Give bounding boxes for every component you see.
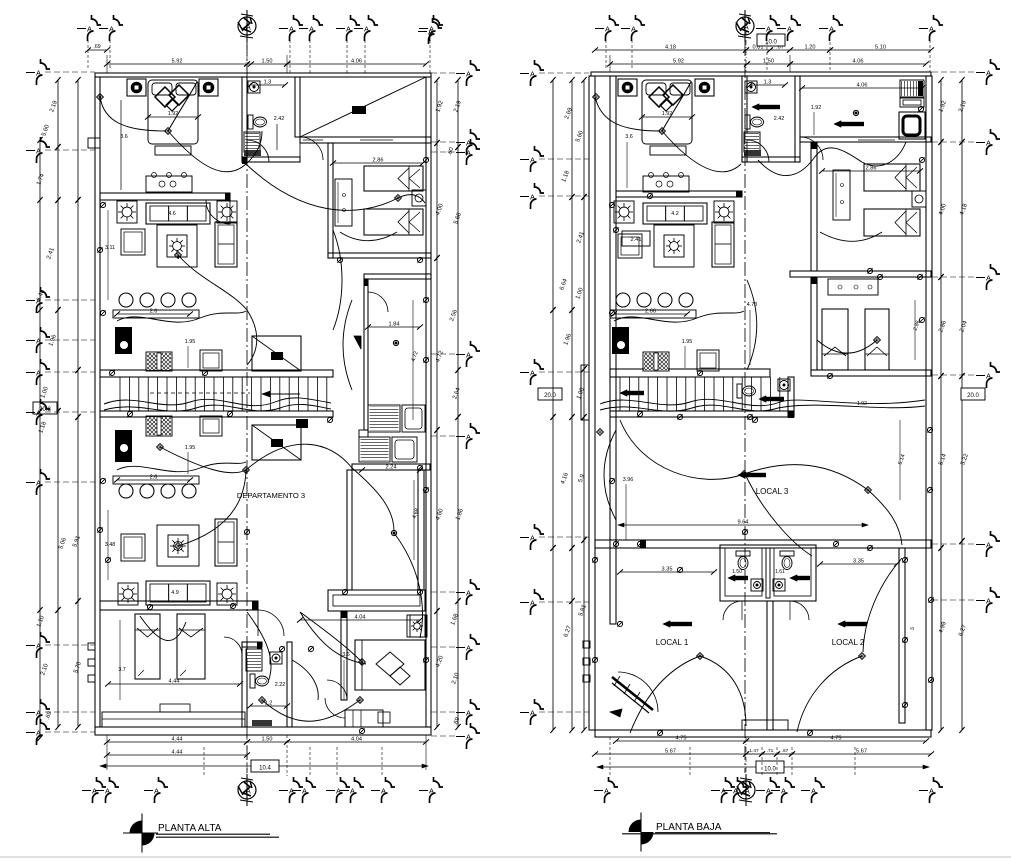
stairs U treads [120, 377, 327, 411]
fan chair R2 [714, 201, 734, 223]
text 2.19 r [453, 100, 463, 114]
dim 1.84 [365, 322, 423, 330]
svg-text:A: A [429, 787, 434, 796]
wire laundry [343, 300, 352, 390]
outlet L14 [337, 257, 342, 262]
text R 1.00b [576, 387, 586, 401]
wall R kitchen bottom [610, 369, 770, 377]
svg-text:A: A [364, 25, 369, 34]
dim 2.24 [359, 465, 423, 473]
outlet L5 [100, 202, 105, 207]
arrow stairs R2 [759, 396, 784, 402]
ext bottom [107, 735, 426, 782]
text 1.86 r [455, 508, 465, 522]
text RR 4.18 [959, 203, 969, 217]
svg-text:A: A [811, 787, 816, 796]
svg-text:5.92: 5.92 [673, 59, 684, 65]
svg-text:A: A [744, 787, 750, 796]
wall right-plan left [589, 76, 595, 730]
svg-text:20.0: 20.0 [967, 393, 979, 399]
svg-text:A: A [829, 25, 834, 34]
text 1.95 U [185, 339, 196, 368]
outlet R5 [609, 310, 614, 315]
wall bedroom3 left [341, 611, 347, 700]
stairs R wire wave 2 [600, 405, 925, 411]
amark bottom R2 [723, 777, 747, 803]
amark left L6 [26, 469, 95, 495]
counter R U [610, 309, 696, 319]
wall living2/bedroom [100, 601, 258, 610]
outlet X1 [867, 545, 872, 550]
stairs rail dashed [150, 392, 250, 394]
svg-text:3.11: 3.11 [105, 245, 115, 251]
wall R kitchenTR bottom [800, 137, 931, 142]
washbasin R bath [745, 81, 757, 93]
fan chair U1 [117, 201, 137, 223]
svg-text:A: A [929, 25, 934, 34]
svg-text:4.44: 4.44 [172, 737, 183, 743]
section line right-plan [744, 42, 746, 773]
wall R stairs right [788, 377, 794, 417]
wire bath2 [292, 660, 318, 700]
toilet in stairs [737, 384, 756, 398]
dim 2.22 bath2 [275, 682, 286, 688]
wall R stairs bottom [610, 411, 794, 417]
svg-text:10.4: 10.4 [259, 766, 271, 772]
svg-text:2.42: 2.42 [774, 116, 785, 122]
arrow local1 [663, 621, 692, 627]
wall bath2 right [287, 642, 292, 727]
amark bottom R5 [801, 777, 825, 803]
amark top R0 [595, 15, 619, 41]
bed B2b [364, 209, 423, 235]
nightstand RN2 [695, 79, 714, 96]
svg-text:A: A [986, 69, 991, 78]
balcony bump R1 [583, 641, 590, 648]
wall R local divider [767, 601, 773, 730]
svg-text:.69: .69 [93, 44, 100, 50]
bed RBb [865, 309, 889, 370]
svg-text:1.20: 1.20 [805, 45, 816, 51]
svg-text:A: A [466, 644, 471, 653]
svg-text:3.96: 3.96 [623, 477, 634, 483]
amark top L2 [279, 15, 303, 41]
svg-text:A: A [381, 787, 386, 796]
wall bath1 bottom [242, 157, 300, 162]
outlet X5 [423, 357, 428, 362]
dim 1.3 bath1 [247, 80, 288, 88]
text RR 6.27 [958, 624, 968, 638]
amark Rright 3 [932, 362, 1000, 388]
arrow local3 [738, 472, 766, 478]
stairs wire wave 2 [104, 404, 331, 411]
wire bedroom3 b [300, 612, 366, 664]
text 5.60 l [41, 124, 51, 138]
armchair U [121, 229, 145, 255]
title planta baja [656, 822, 722, 833]
fridge U [200, 350, 222, 371]
svg-text:9.64: 9.64 [738, 520, 749, 526]
wire local2 [797, 653, 865, 732]
terrace diagonal arrow [352, 106, 366, 114]
wire R kitchenTR wave [758, 142, 906, 176]
text RR 5.22 [960, 453, 970, 467]
dimline left x40 [37, 137, 42, 741]
amark topright corner [418, 18, 442, 44]
amark right L1 [431, 129, 480, 155]
amark top R4 [819, 15, 843, 41]
svg-text:A: A [466, 351, 471, 360]
arrow local2 [838, 621, 867, 627]
wire L3 [243, 444, 352, 473]
wire lower kitchen wave [117, 462, 246, 472]
outlet L2 [202, 370, 207, 375]
bed L2 [177, 614, 205, 679]
text 4.60 r [435, 508, 445, 522]
text R 5.9 [578, 473, 587, 484]
door arc bath1 [247, 140, 269, 162]
outlet R12 [902, 702, 907, 707]
wire L7 [300, 612, 365, 665]
text R 1.96 [563, 333, 573, 347]
svg-text:1.95: 1.95 [185, 445, 196, 451]
text 5.68 r [453, 212, 463, 226]
dimline R left x553 [550, 77, 555, 733]
fan chair U2 [217, 201, 237, 223]
svg-text:2.66: 2.66 [645, 309, 656, 315]
wire R hall [747, 280, 757, 370]
text RR 2.04 [959, 320, 969, 334]
sink R [612, 327, 629, 354]
washbasin bath1 [248, 81, 260, 93]
amark left L4 [26, 359, 95, 385]
dim R 2.86 inner [912, 300, 921, 360]
svg-text:1.61: 1.61 [775, 569, 785, 575]
bed RA1 [864, 164, 920, 191]
nightstand RN1 [618, 79, 637, 96]
svg-text:A: A [466, 589, 471, 598]
svg-text:.71: .71 [767, 748, 774, 754]
wire L6 [247, 612, 271, 682]
svg-text:PLANTA BAJA: PLANTA BAJA [656, 822, 722, 833]
dim R 2.86 bedroomA [819, 166, 923, 174]
svg-text:4.6: 4.6 [168, 211, 176, 217]
dim R bottom 1 [613, 736, 929, 744]
amark right L4 [431, 423, 480, 449]
outlet X18 [592, 657, 597, 662]
text .60 r [447, 146, 456, 157]
dim R 4.73 [747, 302, 758, 365]
wire bed to bath [246, 131, 262, 164]
dimline left x78 [75, 77, 80, 730]
arrow stairs R1 [620, 390, 644, 396]
wall R stalls [720, 545, 816, 601]
arrow R bath [752, 104, 780, 110]
text R 4.16 [560, 472, 570, 486]
svg-text:A: A [466, 70, 471, 79]
stairs wire wave [104, 398, 331, 406]
svg-text:A: A [154, 787, 159, 796]
coffee table L [157, 525, 199, 566]
wall patio right [418, 470, 424, 590]
wall R bedroomA left [811, 142, 817, 271]
lamp patio1 [393, 340, 398, 345]
text R 1.95 [682, 339, 693, 368]
amark bottom L8 [419, 777, 443, 803]
wire L9 [259, 697, 364, 722]
toilet bath1 [248, 115, 267, 129]
amark top R2 [756, 15, 780, 41]
entry arc R [618, 672, 658, 712]
svg-text:A: A [605, 25, 610, 34]
ext R top [606, 30, 930, 72]
dimline left x58 [55, 77, 60, 730]
outlet L10 [279, 646, 284, 651]
text 4.00 r [435, 203, 445, 217]
balcony rail [328, 590, 425, 611]
label local3 [756, 487, 789, 496]
wire bedroom1 b [168, 82, 246, 172]
svg-text:A: A [302, 787, 307, 796]
amark right L5 [431, 579, 480, 605]
fridge R [697, 350, 719, 371]
svg-text:2.22: 2.22 [275, 682, 286, 688]
amark top R1 [621, 15, 645, 41]
outlet R11 [902, 637, 907, 642]
amark top R5 [919, 15, 943, 41]
dim R top chain1 [592, 45, 934, 53]
toilet stall2 [780, 551, 794, 570]
svg-text:1.47: 1.47 [749, 748, 759, 754]
entry door R hatch [610, 676, 653, 717]
fan chair L2 [217, 583, 237, 605]
bench R foot [650, 146, 686, 155]
svg-text:LOCAL 3: LOCAL 3 [756, 487, 789, 496]
outlet R1 [609, 202, 614, 207]
text 5.70 l [73, 661, 83, 675]
outlet R7 [742, 529, 747, 534]
text RR 2.86 [938, 320, 948, 334]
svg-text:3.6: 3.6 [120, 134, 128, 140]
outlet L1 [109, 370, 114, 375]
wire hall down [247, 310, 257, 365]
wire local3 e [745, 474, 812, 556]
wire kitchen U wave [117, 311, 246, 322]
wall bedroom2 left [328, 143, 333, 258]
outlet R8 [833, 541, 838, 546]
dim R top chain2 [607, 59, 929, 67]
bed L1 [135, 614, 160, 679]
sink R TR [899, 106, 925, 139]
sofa R right [712, 222, 734, 267]
text RR 4.00 [938, 203, 948, 217]
outlet R6 [609, 478, 614, 483]
outlet R13 [657, 730, 662, 735]
svg-text:A: A [530, 534, 535, 543]
text 1.74 l [36, 173, 46, 187]
amark Rleft 1 [520, 146, 589, 172]
amark left L2 [26, 287, 95, 313]
svg-text:A: A [743, 23, 749, 32]
svg-text:20.0: 20.0 [544, 393, 556, 399]
stove U [146, 352, 172, 371]
svg-text:A: A [245, 787, 251, 796]
washer 1 [368, 405, 400, 432]
lamp R kitchen [853, 110, 858, 115]
svg-text:LOCAL 2: LOCAL 2 [832, 638, 865, 647]
wall bath2 top [242, 642, 262, 647]
dim 9.64 [618, 520, 868, 528]
outlet R20 [677, 567, 682, 572]
amark Rleft 5 [520, 589, 589, 615]
svg-text:3.7: 3.7 [118, 667, 126, 673]
washbasin stall2 [773, 579, 785, 591]
dim chain top [104, 59, 429, 67]
dim 4.68 inner [411, 480, 420, 560]
wall left-plan left notch [88, 138, 100, 148]
amark bottom R4 [771, 777, 795, 803]
wall terrace bottom [300, 137, 431, 143]
dim 3.6 bedroom3 [342, 652, 350, 700]
stove R TR [900, 80, 924, 97]
wall R bath bottom [742, 157, 800, 162]
box 20.0 right [961, 388, 985, 400]
svg-text:2.6: 2.6 [150, 475, 158, 481]
nightstand N1 [127, 79, 146, 96]
wall right-plan bottom [595, 720, 931, 737]
wall bedroom1/living [100, 193, 230, 200]
amark Rleft 4 [520, 524, 589, 550]
svg-text:PLANTA ALTA: PLANTA ALTA [158, 823, 222, 834]
outlet L7 [230, 603, 235, 608]
svg-text:4.2: 4.2 [671, 211, 679, 217]
svg-text:4.06: 4.06 [351, 59, 362, 65]
outlet R19 [617, 621, 622, 626]
text 6.48 l [36, 289, 46, 303]
hatch strip R bath [744, 150, 761, 156]
wall R bedroom1/living [616, 191, 742, 197]
amark Rleft 6 [520, 699, 589, 725]
svg-text:A: A [530, 709, 535, 718]
amark right L6 [431, 634, 480, 660]
text RR 5.14 [938, 453, 948, 467]
text 5.91 l [72, 535, 82, 549]
svg-text:A: A [986, 541, 991, 550]
toilet stall1 [736, 551, 750, 570]
sofa U right [215, 222, 237, 267]
wall R local2 corridor [899, 548, 905, 723]
wall patio left [347, 470, 352, 590]
wire L2 [157, 444, 246, 473]
dim 5.14 inner [897, 420, 906, 500]
jamb laundry [364, 279, 368, 286]
svg-text:A: A [105, 787, 110, 796]
svg-text:A: A [346, 25, 351, 34]
outlet R18 [827, 373, 832, 378]
toilet bath2 [250, 674, 269, 688]
lamp bedroom1 [0, 0, 1, 1]
door leaf laundry [354, 336, 361, 349]
outlet X15 [423, 157, 428, 162]
outlet R3 [637, 411, 642, 416]
dim 3.35 a [617, 567, 717, 575]
tub 2 [392, 437, 417, 462]
kitchen counter U [113, 309, 199, 319]
nightstand B3 [407, 615, 427, 637]
svg-text:10.0: 10.0 [764, 767, 776, 773]
washer 2 [359, 437, 390, 462]
text 4.72 r [435, 350, 445, 364]
sheet bottom edge [0, 856, 1011, 858]
svg-text:A: A [466, 433, 471, 442]
section line left-plan [246, 42, 248, 773]
dim 4.04 inner [297, 615, 423, 623]
svg-text:5.10: 5.10 [875, 45, 886, 51]
svg-text:1.95: 1.95 [682, 339, 693, 345]
pencil bottom left-plan [238, 774, 256, 806]
wire R bedroom b [662, 82, 741, 172]
outlet X3 [927, 427, 932, 432]
arrow stall2 [790, 575, 810, 581]
amark left L5 [26, 399, 95, 425]
text 1.92 r [435, 100, 445, 114]
washbasin stall1 [751, 579, 763, 591]
dim 3.7 [118, 620, 126, 700]
text 5.06 l [58, 537, 68, 551]
amark right L8 [431, 723, 480, 749]
svg-text:A: A [929, 787, 934, 796]
svg-text:.67: .67 [782, 748, 789, 754]
text 1.50 stall [732, 569, 742, 575]
terrace diagonal [300, 77, 426, 137]
text 1.00 l [40, 386, 50, 400]
dimline R left x584 [581, 77, 586, 733]
jamb bath2 top [257, 642, 262, 649]
wall R bedroomB left [811, 277, 817, 370]
elevator shaft [252, 336, 301, 371]
wire R bedroomB [817, 337, 880, 354]
jamb R stairs [788, 411, 794, 418]
svg-text:A: A [733, 787, 738, 796]
svg-text:1.50: 1.50 [262, 59, 273, 65]
amark bottom L4 [292, 777, 316, 803]
outlet L3 [127, 411, 132, 416]
amark bottom R3 [756, 777, 780, 803]
sofa U [146, 203, 210, 224]
bench foot of bed [155, 146, 191, 155]
svg-text:A: A [986, 597, 991, 606]
door arc R hall [800, 137, 823, 160]
wire local3 c [868, 490, 902, 545]
pencil top left-plan [238, 10, 256, 42]
text 1.68 r [450, 613, 460, 627]
svg-text:1.92: 1.92 [811, 105, 822, 111]
counter R TR [900, 98, 924, 107]
text R 2.42 [774, 116, 785, 122]
text 2.19 l [49, 100, 59, 114]
stove R [643, 352, 669, 371]
svg-text:2.6: 2.6 [150, 309, 158, 315]
title underline right [655, 832, 770, 834]
wall R bedroomB bottom [811, 370, 931, 376]
svg-text:4.04: 4.04 [351, 737, 362, 743]
title planta alta [158, 823, 222, 834]
balcony bump 2 [88, 659, 95, 666]
outlet L20 [105, 557, 110, 562]
wall bath1 right [295, 77, 300, 137]
bed RA2 [864, 209, 920, 236]
dim R 4.06 inner [799, 83, 925, 91]
